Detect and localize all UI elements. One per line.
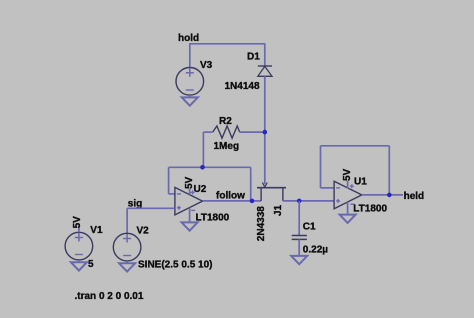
wire C1 to ground (298, 239, 300, 256)
capacitor C1 (292, 222, 329, 256)
wire U1 minus input stub (321, 187, 335, 189)
wire V2 to ground (126, 261, 128, 263)
svg-text:LT1800: LT1800 (196, 213, 230, 224)
junction node R2/D1/gate (263, 130, 268, 135)
wire U1 V+ stub (347, 181, 349, 189)
svg-text:1N4148: 1N4148 (225, 81, 260, 92)
wire R2 left lead (203, 131, 212, 133)
wire node to J1 gate (264, 132, 266, 184)
wire J1 drain to C1/U1 (283, 200, 334, 202)
svg-text:5: 5 (88, 259, 94, 270)
op-amp U2 (175, 184, 230, 224)
wire U1 feedback left drop (320, 146, 322, 188)
JFET J1 (256, 183, 286, 242)
junction C1 node (297, 199, 302, 204)
ground below C1 (291, 256, 307, 264)
wire D1 anode to node (264, 76, 266, 132)
wire R2 right lead (240, 131, 265, 133)
svg-text:R2: R2 (219, 116, 232, 127)
wire U2 feedback left drop (168, 167, 170, 194)
voltage source V2 (113, 226, 212, 271)
svg-text:U2: U2 (194, 184, 207, 195)
svg-text:U1: U1 (354, 177, 367, 188)
svg-text:D1: D1 (247, 52, 260, 63)
wire V3 top stub (189, 43, 191, 68)
wire V3 to ground (189, 95, 191, 97)
wire U1 output (held) (362, 194, 403, 196)
svg-text:2N4338: 2N4338 (256, 206, 267, 241)
diode D1 (225, 52, 273, 92)
wire U1 feedback top (321, 145, 390, 147)
svg-text:0.22µ: 0.22µ (303, 244, 328, 255)
wire U1 feedback right drop (388, 146, 390, 195)
svg-text:held: held (404, 191, 425, 202)
svg-text:5V: 5V (184, 176, 195, 189)
wire V1 to ground (78, 260, 80, 262)
voltage source V1 (65, 225, 103, 270)
svg-text:C1: C1 (303, 222, 316, 233)
wire U2 feedback top (169, 166, 251, 168)
svg-text:V3: V3 (200, 60, 213, 71)
ground below V1 (71, 262, 87, 270)
ground below U1 (340, 215, 356, 223)
wire V1 top stub (78, 226, 80, 233)
wire D1 cathode stub (264, 43, 266, 66)
wire U1 V- stub (347, 202, 349, 215)
ground below V3 (182, 97, 198, 105)
wire V2 top stub (126, 208, 128, 233)
junction feedback/R2 (200, 165, 205, 170)
svg-text:5V: 5V (342, 168, 353, 181)
wire U2 feedback right drop (250, 167, 252, 201)
wire sig rail (127, 207, 175, 209)
svg-text:V2: V2 (137, 226, 150, 237)
wire U2 V- stub (189, 208, 191, 223)
resistor R2 (213, 116, 240, 152)
wire hold rail (190, 43, 265, 45)
wire U2 minus input stub (169, 193, 175, 195)
svg-text:SINE(2.5 0.5 10): SINE(2.5 0.5 10) (138, 260, 212, 271)
ground below U2 (182, 222, 198, 230)
svg-text:LT1800: LT1800 (353, 204, 387, 215)
svg-text:5V: 5V (72, 216, 83, 229)
wire U2 V+ stub (189, 189, 191, 195)
svg-text:hold: hold (178, 33, 199, 44)
op-amp U1 (334, 177, 387, 215)
svg-text:J1: J1 (273, 204, 284, 216)
junction held/feedback (387, 193, 392, 198)
ground below V2 (119, 263, 135, 271)
svg-text:1Meg: 1Meg (214, 141, 240, 152)
svg-text:follow: follow (216, 191, 245, 202)
wire R2 left drop to feedback (202, 132, 204, 167)
svg-text:V1: V1 (90, 225, 103, 236)
junction follow/J1 source (250, 199, 255, 204)
svg-text:.tran 0 2 0 0.01: .tran 0 2 0 0.01 (75, 291, 144, 302)
voltage source V3 (176, 60, 213, 95)
wire U2 output (follow) (203, 200, 262, 202)
wire C1 drop (298, 201, 300, 236)
